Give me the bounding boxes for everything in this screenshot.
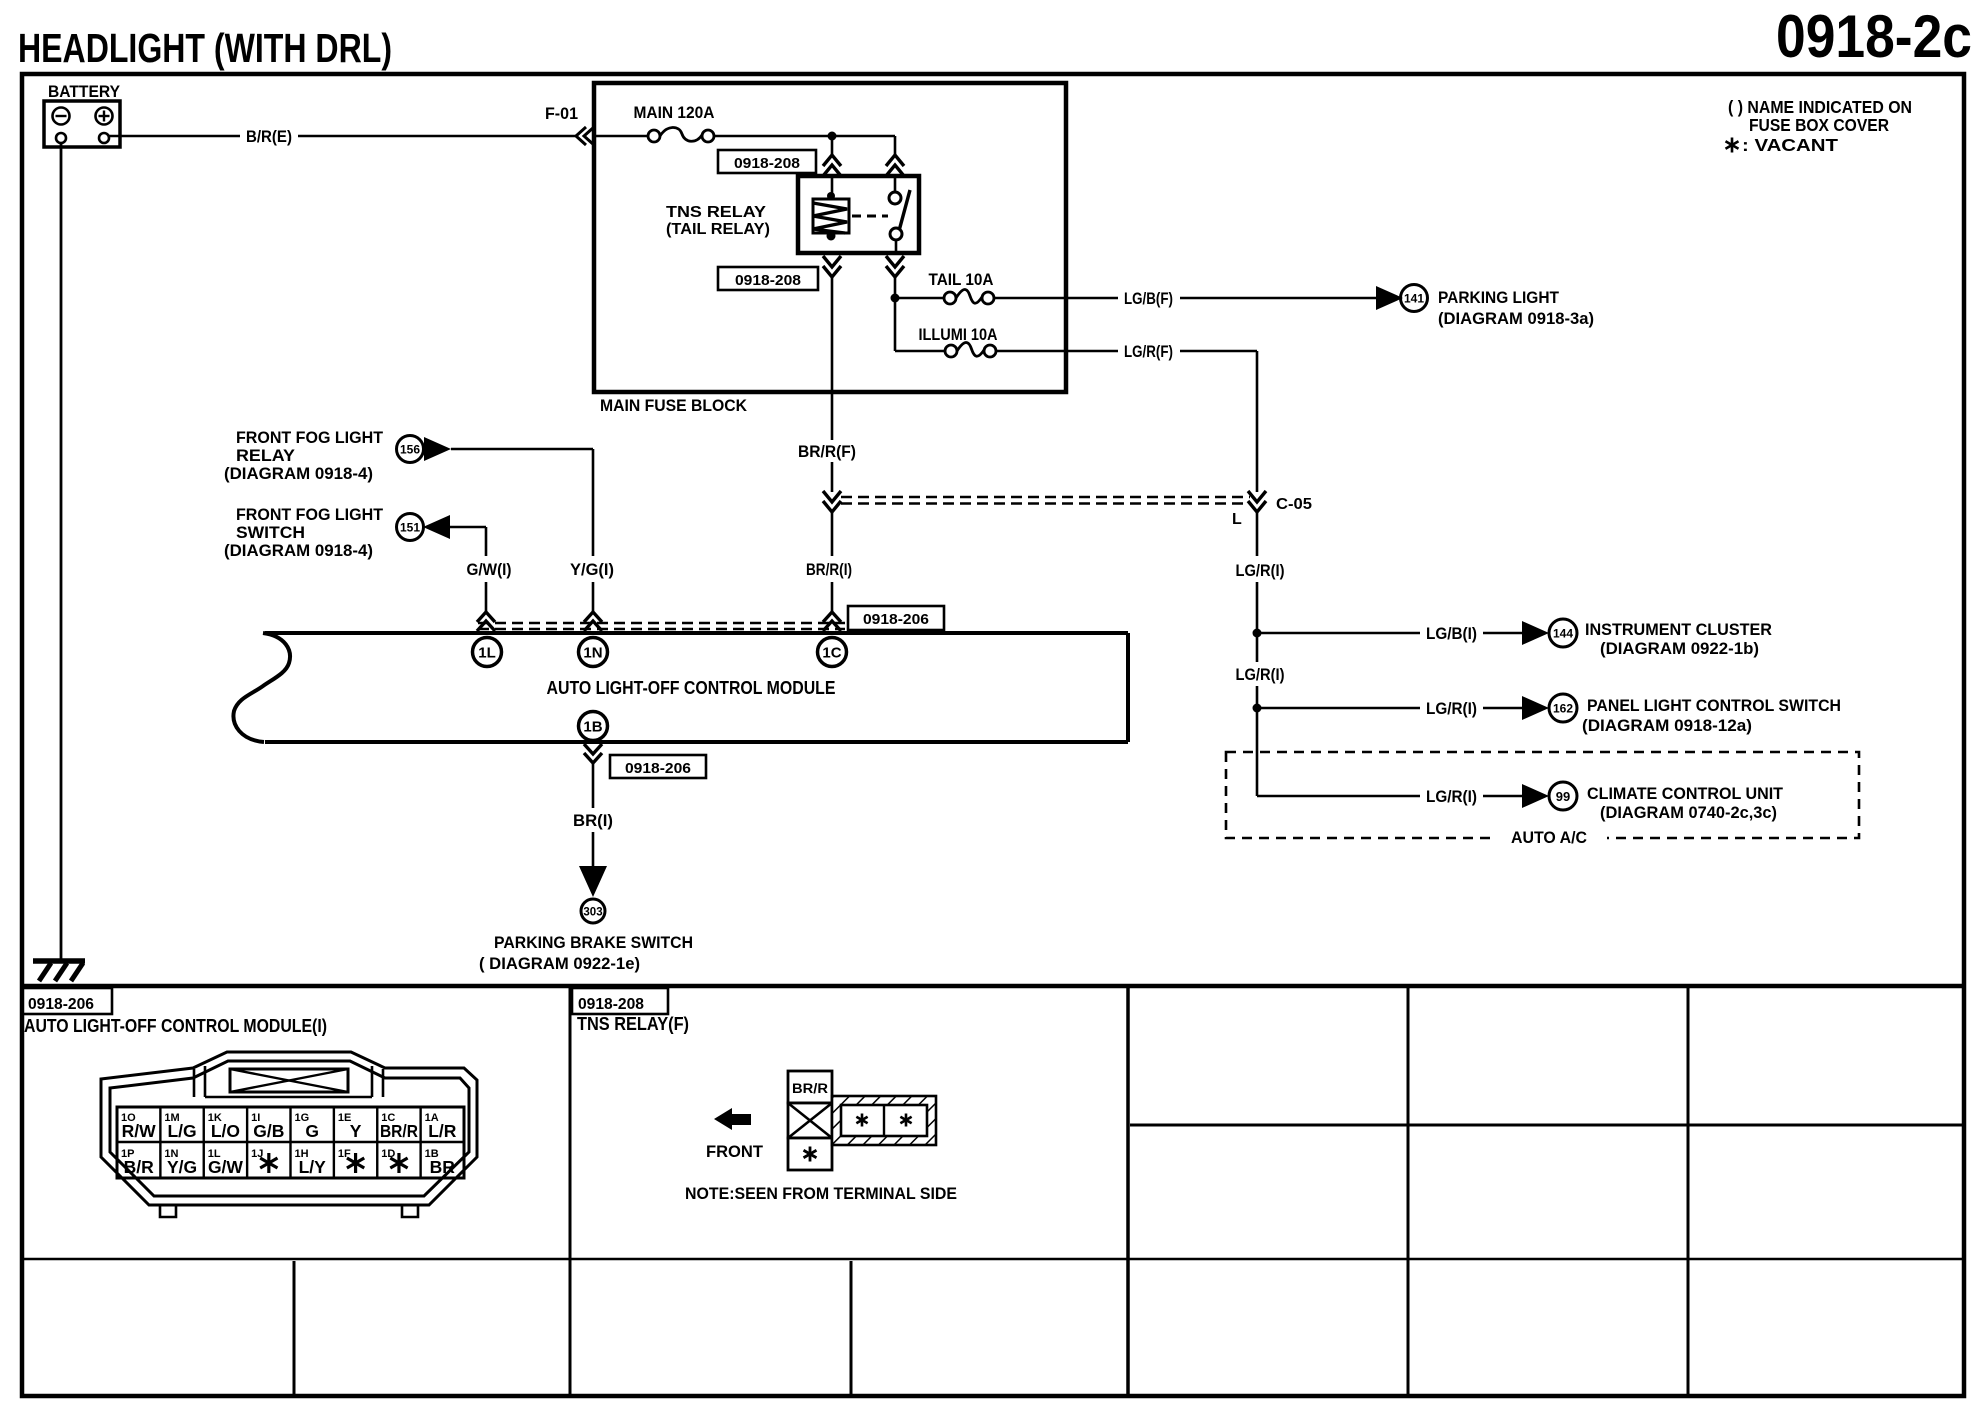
svg-text:HEADLIGHT (WITH DRL): HEADLIGHT (WITH DRL) bbox=[18, 25, 392, 71]
junction node tail fuse bbox=[891, 294, 900, 303]
title bbox=[18, 25, 392, 71]
svg-text:(DIAGRAM 0918-4): (DIAGRAM 0918-4) bbox=[224, 464, 373, 483]
label parking brake switch bbox=[479, 933, 693, 973]
label BR/R(F) bbox=[798, 442, 856, 461]
svg-text:L/R: L/R bbox=[428, 1121, 457, 1141]
arrow to panel light control switch (162) bbox=[1522, 694, 1577, 722]
label LG/R(I) climate branch bbox=[1426, 787, 1477, 806]
svg-text:BATTERY: BATTERY bbox=[48, 83, 120, 101]
note name indicated on fuse box cover bbox=[1728, 97, 1912, 135]
label LG/B(I) bbox=[1426, 624, 1477, 643]
wire TNS relay switch to fuses bbox=[895, 277, 944, 351]
terminal X (occupied) bbox=[788, 1103, 832, 1138]
svg-text:G/B: G/B bbox=[253, 1121, 284, 1141]
pin 1I G/B bbox=[251, 1112, 284, 1141]
svg-text:LG/R(I): LG/R(I) bbox=[1426, 699, 1477, 718]
svg-text:0918-206: 0918-206 bbox=[28, 996, 94, 1013]
label instrument cluster bbox=[1585, 620, 1772, 658]
wire B/R(E) battery to fuse block bbox=[109, 135, 648, 138]
svg-text:151: 151 bbox=[400, 521, 420, 535]
fuse MAIN 120A bbox=[634, 103, 715, 142]
relay TNS (tail relay) U1 bbox=[666, 176, 919, 253]
wire LG/B(F) to parking light bbox=[994, 297, 1377, 300]
pin 1C BR/R bbox=[380, 1112, 418, 1141]
svg-text:SWITCH: SWITCH bbox=[236, 523, 305, 542]
svg-text:B/R(E): B/R(E) bbox=[246, 127, 292, 146]
fuse ILLUMI 10A bbox=[919, 325, 998, 357]
label LG/R(I) lower bbox=[1236, 665, 1285, 684]
connector drawing auto light-off control module bbox=[101, 1052, 477, 1217]
wire LG/R(F) bbox=[996, 351, 1257, 492]
connector F-01 bbox=[545, 104, 594, 145]
svg-text:PARKING LIGHT: PARKING LIGHT bbox=[1438, 288, 1560, 307]
svg-text:(DIAGRAM 0918-3a): (DIAGRAM 0918-3a) bbox=[1438, 309, 1594, 328]
svg-text:G/W(I): G/W(I) bbox=[467, 560, 512, 579]
svg-text:LG/R(F): LG/R(F) bbox=[1124, 342, 1173, 361]
svg-text:(DIAGRAM 0922-1b): (DIAGRAM 0922-1b) bbox=[1600, 639, 1759, 658]
svg-text:B/R: B/R bbox=[124, 1157, 155, 1177]
label panel light control switch bbox=[1582, 696, 1841, 735]
svg-text:303: 303 bbox=[583, 907, 602, 919]
label climate control unit bbox=[1587, 784, 1784, 822]
svg-text:MAIN 120A: MAIN 120A bbox=[634, 103, 715, 122]
label B/R(E) bbox=[246, 127, 292, 146]
svg-text:L/O: L/O bbox=[211, 1121, 240, 1141]
terminal block vacant pair bbox=[832, 1096, 936, 1145]
svg-text:L/G: L/G bbox=[167, 1121, 196, 1141]
svg-text:LG/R(I): LG/R(I) bbox=[1426, 787, 1477, 806]
svg-text:: VACANT: : VACANT bbox=[1742, 135, 1838, 155]
wire LG/R(I) main vertical bbox=[1257, 512, 1522, 796]
pin 1J * bbox=[251, 1148, 277, 1173]
svg-text:144: 144 bbox=[1553, 627, 1573, 641]
svg-text:(DIAGRAM 0740-2c,3c): (DIAGRAM 0740-2c,3c) bbox=[1600, 803, 1777, 822]
pin 1B bbox=[579, 712, 608, 741]
wire LG/R(I) branch to panel light switch bbox=[1257, 707, 1522, 710]
svg-text:FRONT FOG LIGHT: FRONT FOG LIGHT bbox=[236, 505, 384, 524]
page number 0918-2c bbox=[1776, 3, 1972, 70]
svg-text:156: 156 bbox=[400, 443, 420, 457]
tab 0918-208 bbox=[572, 988, 668, 1014]
svg-text:TAIL 10A: TAIL 10A bbox=[929, 270, 994, 289]
svg-text:1C: 1C bbox=[822, 645, 841, 662]
pin 1G G bbox=[295, 1112, 320, 1141]
terminal BR/R bbox=[788, 1071, 832, 1103]
front fog light relay reference (156) bbox=[224, 428, 451, 483]
module auto light-off control module bbox=[233, 633, 1128, 742]
svg-text:G: G bbox=[305, 1121, 319, 1141]
svg-text:0918-206: 0918-206 bbox=[625, 760, 691, 777]
svg-text:MAIN FUSE BLOCK: MAIN FUSE BLOCK bbox=[600, 397, 747, 415]
pin 1D * bbox=[381, 1148, 407, 1173]
connector 0918-206 module top bbox=[477, 606, 944, 631]
svg-text:LG/B(F): LG/B(F) bbox=[1124, 289, 1173, 308]
pin 1N bbox=[579, 638, 608, 667]
svg-text:BR(I): BR(I) bbox=[573, 811, 613, 830]
battery bbox=[44, 83, 120, 147]
svg-text:AUTO A/C: AUTO A/C bbox=[1511, 828, 1587, 847]
svg-text:R/W: R/W bbox=[122, 1121, 157, 1141]
svg-text:FUSE BOX COVER: FUSE BOX COVER bbox=[1749, 115, 1889, 135]
label parking light bbox=[1438, 288, 1594, 328]
arrow to climate control unit (99) bbox=[1522, 782, 1577, 810]
ground bbox=[33, 961, 85, 981]
svg-text:Y: Y bbox=[350, 1121, 362, 1141]
pin 1P B/R bbox=[121, 1148, 154, 1177]
wire Y/G(I) fog relay to module bbox=[451, 449, 593, 612]
arrow to parking brake switch (303) bbox=[579, 866, 607, 923]
front fog light switch reference (151) bbox=[224, 505, 450, 560]
svg-text:FRONT FOG LIGHT: FRONT FOG LIGHT bbox=[236, 428, 384, 447]
junction node panel light branch bbox=[1253, 704, 1262, 713]
junction node instrument cluster branch bbox=[1253, 629, 1262, 638]
arrow to instrument cluster (144) bbox=[1522, 619, 1577, 647]
wire G/W(I) fog switch to module bbox=[450, 527, 486, 612]
auto A/C dashed box bbox=[1226, 752, 1859, 848]
label LG/B(F) bbox=[1124, 289, 1173, 308]
pin 1L bbox=[473, 638, 502, 667]
label Y/G(I) bbox=[570, 560, 614, 579]
svg-text:ILLUMI 10A: ILLUMI 10A bbox=[919, 325, 998, 344]
svg-text:RELAY: RELAY bbox=[236, 446, 296, 465]
connector C-05 bbox=[823, 491, 1312, 528]
svg-text:CLIMATE CONTROL UNIT: CLIMATE CONTROL UNIT bbox=[1587, 784, 1784, 803]
heading TNS relay(F) bbox=[577, 1014, 689, 1034]
svg-text:AUTO LIGHT-OFF CONTROL MODULE: AUTO LIGHT-OFF CONTROL MODULE bbox=[547, 678, 836, 698]
svg-text:BR/R(I): BR/R(I) bbox=[806, 560, 852, 579]
svg-text:G/W: G/W bbox=[208, 1157, 243, 1177]
wire battery negative to ground bbox=[60, 143, 63, 961]
label G/W(I) bbox=[467, 560, 512, 579]
svg-text:TNS RELAY(F): TNS RELAY(F) bbox=[577, 1014, 689, 1034]
label BR/R(I) bbox=[806, 560, 852, 579]
svg-text:(TAIL RELAY): (TAIL RELAY) bbox=[666, 221, 770, 238]
svg-text:BR/R: BR/R bbox=[380, 1121, 418, 1141]
pin 1M L/G bbox=[164, 1112, 196, 1141]
heading auto light-off control module(I) bbox=[24, 1016, 327, 1036]
svg-text:PANEL LIGHT CONTROL SWITCH: PANEL LIGHT CONTROL SWITCH bbox=[1587, 696, 1841, 715]
svg-text:1L: 1L bbox=[478, 645, 496, 662]
label LG/R(I) panel branch bbox=[1426, 699, 1477, 718]
svg-text:AUTO LIGHT-OFF CONTROL MODULE(: AUTO LIGHT-OFF CONTROL MODULE(I) bbox=[24, 1016, 327, 1036]
pin 1O R/W bbox=[121, 1112, 156, 1141]
connector 0918-208 bottom bbox=[718, 256, 904, 290]
svg-text:L/Y: L/Y bbox=[299, 1157, 327, 1177]
svg-text:0918-208: 0918-208 bbox=[734, 155, 800, 172]
main fuse block bbox=[594, 83, 1066, 415]
svg-text:LG/B(I): LG/B(I) bbox=[1426, 624, 1477, 643]
svg-text:0918-208: 0918-208 bbox=[578, 996, 644, 1013]
svg-text:(DIAGRAM 0918-4): (DIAGRAM 0918-4) bbox=[224, 541, 373, 560]
svg-text:(DIAGRAM 0918-12a): (DIAGRAM 0918-12a) bbox=[1582, 716, 1752, 735]
svg-text:1B: 1B bbox=[583, 719, 602, 736]
svg-text:0918-208: 0918-208 bbox=[735, 272, 801, 289]
pin 1H L/Y bbox=[295, 1148, 327, 1177]
note vacant bbox=[1726, 135, 1839, 155]
svg-text:NOTE:SEEN FROM TERMINAL SIDE: NOTE:SEEN FROM TERMINAL SIDE bbox=[685, 1184, 957, 1203]
svg-text:( ) NAME INDICATED ON: ( ) NAME INDICATED ON bbox=[1728, 97, 1912, 117]
svg-text:INSTRUMENT CLUSTER: INSTRUMENT CLUSTER bbox=[1585, 620, 1772, 639]
wire LG/B(I) branch bbox=[1257, 632, 1522, 635]
svg-text:0918-206: 0918-206 bbox=[863, 611, 929, 628]
svg-text:1N: 1N bbox=[583, 645, 602, 662]
svg-text:LG/R(I): LG/R(I) bbox=[1236, 561, 1285, 580]
label BR(I) bbox=[573, 811, 613, 830]
svg-text:LG/R(I): LG/R(I) bbox=[1236, 665, 1285, 684]
svg-text:Y/G(I): Y/G(I) bbox=[570, 560, 614, 579]
pin 1B BR bbox=[425, 1148, 456, 1177]
junction node main fuse output bbox=[828, 132, 837, 141]
svg-text:TNS RELAY: TNS RELAY bbox=[666, 204, 766, 221]
svg-text:BR/R: BR/R bbox=[792, 1081, 828, 1096]
svg-text:( DIAGRAM 0922-1e): ( DIAGRAM 0922-1e) bbox=[479, 954, 640, 973]
svg-text:BR/R(F): BR/R(F) bbox=[798, 442, 856, 461]
pin 1C bbox=[818, 638, 847, 667]
svg-text:0918-2c: 0918-2c bbox=[1776, 3, 1972, 70]
svg-text:FRONT: FRONT bbox=[706, 1142, 764, 1161]
pin 1L G/W bbox=[208, 1148, 244, 1177]
svg-text:141: 141 bbox=[1404, 292, 1424, 306]
pin 1A L/R bbox=[425, 1112, 457, 1141]
wire BR(I) bbox=[592, 742, 595, 867]
wire BR/R(F) bbox=[831, 277, 834, 492]
tab 0918-206 bbox=[22, 988, 112, 1014]
svg-text:99: 99 bbox=[1556, 789, 1570, 804]
svg-text:C-05: C-05 bbox=[1276, 496, 1312, 513]
terminal vacant below bbox=[788, 1138, 832, 1170]
svg-text:Y/G: Y/G bbox=[167, 1157, 197, 1177]
svg-text:PARKING BRAKE SWITCH: PARKING BRAKE SWITCH bbox=[494, 933, 693, 952]
pin 1K L/O bbox=[208, 1112, 240, 1141]
front direction arrow bbox=[706, 1108, 764, 1161]
svg-text:F-01: F-01 bbox=[545, 104, 578, 123]
fuse TAIL 10A bbox=[929, 270, 995, 304]
label LG/R(I) upper bbox=[1236, 561, 1285, 580]
pin 1E Y bbox=[338, 1112, 362, 1141]
svg-text:L: L bbox=[1232, 511, 1242, 528]
note seen from terminal side bbox=[685, 1184, 957, 1203]
pin 1F * bbox=[338, 1148, 364, 1173]
connector 0918-208 top bbox=[718, 150, 904, 176]
svg-text:BR: BR bbox=[430, 1157, 456, 1177]
arrow to parking light (141) bbox=[1376, 285, 1428, 312]
wire main fuse to TNS relay bbox=[714, 136, 895, 196]
pin 1N Y/G bbox=[164, 1148, 197, 1177]
label LG/R(F) bbox=[1124, 342, 1173, 361]
connector 0918-206 below pin 1B bbox=[584, 744, 706, 778]
svg-text:162: 162 bbox=[1553, 702, 1573, 716]
wire BR/R(I) bbox=[831, 512, 834, 612]
